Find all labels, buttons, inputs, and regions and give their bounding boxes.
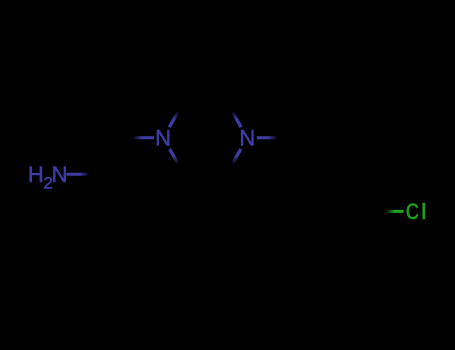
svg-text:C: C xyxy=(406,200,419,224)
bond C2-N1 xyxy=(121,136,154,139)
bond C1-C2 (carbon-carbon, black) xyxy=(101,138,121,174)
bond N4-C(top-right) of piperazine xyxy=(226,101,241,127)
bond C(bottom-left)-C(bottom-right) of piperazine (black) xyxy=(184,173,226,176)
svg-text:N: N xyxy=(155,126,171,151)
bond N(amine)-C1 xyxy=(67,173,102,176)
svg-text:H: H xyxy=(28,162,44,187)
benzene ring carbon-carbon bonds (black) xyxy=(289,174,373,247)
label H2N (amine) xyxy=(28,162,68,193)
bond N1-C(top-left) of piperazine xyxy=(169,101,184,127)
svg-text:N: N xyxy=(239,126,255,151)
bond N4-CH2(benzyl) xyxy=(257,136,290,139)
svg-text:N: N xyxy=(52,162,68,187)
bond N1-C(bottom-left) of piperazine xyxy=(170,149,185,174)
svg-text:l: l xyxy=(421,199,426,224)
bond CH2-C(ipso) of phenyl (black) xyxy=(289,138,310,175)
bond C(meta)-Cl xyxy=(374,210,404,213)
label Cl (chlorine) xyxy=(406,199,426,224)
bond C(top-left)-C(top-right) of piperazine (black) xyxy=(184,100,226,103)
bond N4-C(bottom-right) of piperazine xyxy=(226,149,241,174)
